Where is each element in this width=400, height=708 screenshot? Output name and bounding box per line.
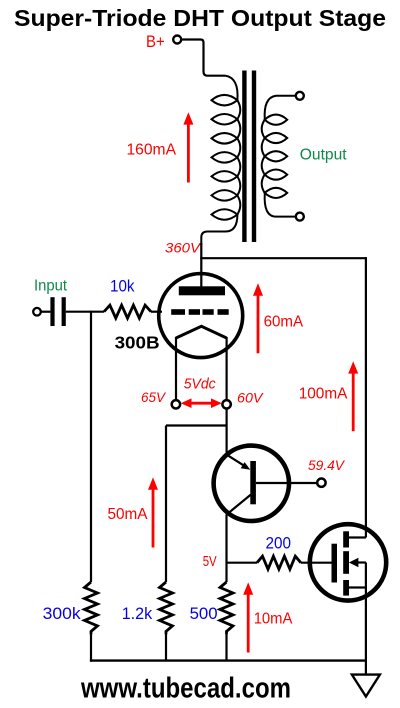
arrow 5Vdc double [181,398,222,408]
resistor 500 [220,582,233,634]
transformer secondary winding [262,96,296,217]
terminal secondary bottom [296,213,304,221]
transistor Q1 [214,446,318,521]
tube filament/cathode [176,326,227,338]
svg-text:Input: Input [34,278,68,295]
wire B+ to transformer primary [182,40,226,76]
filament leg right [226,337,228,400]
current arrow 50mA [148,477,158,547]
svg-text:200: 200 [266,535,292,553]
resistor 200 [257,556,301,569]
wire cathode node horizontal [166,424,227,426]
svg-text:B+: B+ [146,33,165,51]
svg-text:59.4V: 59.4V [308,457,346,473]
svg-text:65V: 65V [141,389,167,405]
resistor R1 10k [104,305,151,318]
wire 500 to rail [225,634,227,661]
svg-text:360V: 360V [165,239,202,255]
terminal input [33,308,41,316]
resistor 1.2k [160,582,173,634]
svg-text:5V: 5V [203,554,217,570]
wire 200 to MOSFET gate [301,562,332,564]
resistor 300k [85,582,98,634]
tube 300B envelope [159,274,243,358]
ground [352,675,380,697]
wire 60V node down to transistor [226,409,228,456]
terminal B+ [173,36,181,44]
wire 10k to grid [151,311,162,313]
terminal secondary top [296,92,304,100]
tube grid (dashed) [171,309,229,315]
wire 360V node to right rail [200,257,366,259]
filament leg left [175,337,177,400]
svg-text:300k: 300k [43,605,82,623]
svg-text:10mA: 10mA [254,611,293,628]
svg-text:100mA: 100mA [299,385,348,402]
MOSFET Q2 [310,524,386,600]
wire 360V node vertical (transformer bottom to tube plate) [200,243,202,287]
wire right rail upper [365,257,367,537]
svg-text:Super-Triode DHT Output Stage: Super-Triode DHT Output Stage [14,5,386,31]
svg-text:60mA: 60mA [264,313,304,330]
svg-text:Output: Output [300,146,347,163]
wire input to capacitor [41,311,51,313]
wire 5V node to 200 [227,562,258,564]
wire transistor collector down to 5V node and 500 [225,514,227,582]
wire capacitor to 10k [66,311,104,313]
svg-text:60V: 60V [237,390,264,406]
current arrow 100mA [348,361,358,431]
svg-text:10k: 10k [110,278,135,296]
transformer T1 primary winding [201,76,240,245]
wire to 1.2k [165,426,167,583]
current arrow 160mA [183,112,193,182]
svg-text:50mA: 50mA [108,506,148,523]
svg-text:500: 500 [190,605,218,623]
svg-text:160mA: 160mA [127,141,177,158]
terminal 65V [172,400,180,408]
wire grid-leak vertical (junction to 300k) [90,311,92,582]
terminal 60V [222,400,230,408]
svg-text:1.2k: 1.2k [122,605,153,623]
current arrow 10mA [243,582,253,652]
svg-text:5Vdc: 5Vdc [184,377,217,393]
tube plate [179,286,225,295]
wire bottom rail [90,659,367,661]
capacitor C1 [50,297,65,326]
wire 300k to rail [90,634,92,662]
transformer core [244,71,254,243]
svg-text:300B: 300B [115,332,160,352]
wire right rail lower [365,588,367,675]
wire 1.2k to rail [165,634,167,661]
terminal 59.4V [317,479,325,487]
current arrow 60mA [253,283,263,353]
svg-text:www.tubecad.com: www.tubecad.com [80,673,291,705]
